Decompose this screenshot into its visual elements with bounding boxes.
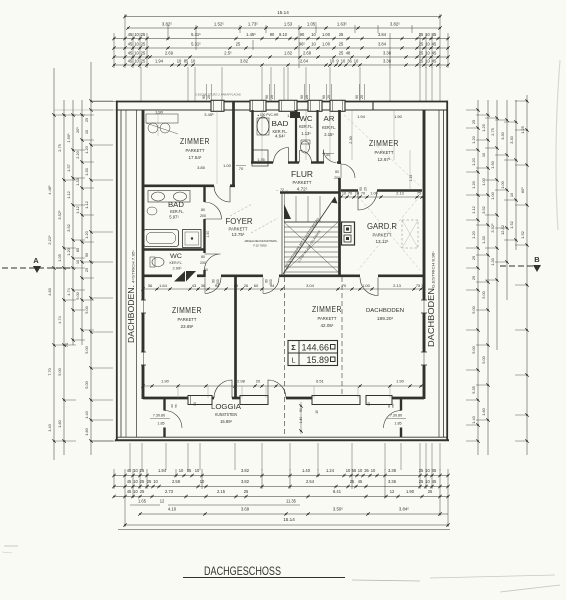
svg-text:← 72 →: ← 72 → [276,188,288,192]
svg-text:DACHBODEN.: DACHBODEN. [127,285,136,343]
svg-text:1.90: 1.90 [161,379,170,384]
svg-text:96⁵: 96⁵ [299,42,306,47]
svg-text:1.05: 1.05 [57,254,62,262]
door arc zimmer-bc [263,278,279,294]
svg-text:1.20: 1.20 [471,135,476,143]
loggia side walls [163,398,165,411]
svg-text:25: 25 [419,51,424,56]
door arc dachboden [360,278,378,296]
svg-text:8.41: 8.41 [333,489,342,494]
svg-text:26: 26 [244,283,249,288]
svg-text:85: 85 [184,59,189,64]
svg-text:25: 25 [140,489,145,494]
svg-text:60⁵: 60⁵ [520,187,525,193]
door arc zimmer-tr [341,164,355,178]
svg-text:189.20¹: 189.20¹ [377,316,394,322]
svg-text:PARKETT: PARKETT [178,317,197,322]
svg-text:25: 25 [140,479,145,484]
svg-text:36: 36 [201,283,206,288]
svg-text:1.94: 1.94 [357,114,366,119]
svg-text:45: 45 [358,479,363,484]
svg-text:1.00: 1.00 [322,32,331,37]
svg-text:4.64¹: 4.64¹ [275,134,286,139]
svg-text:10: 10 [311,32,316,37]
door arc loggia right [268,380,286,398]
svg-text:1.20: 1.20 [66,247,71,255]
svg-text:10: 10 [179,468,184,473]
svg-text:20⁵: 20⁵ [75,127,80,133]
svg-text:2.15: 2.15 [217,489,226,494]
svg-text:2.98: 2.98 [237,379,246,384]
svg-text:1.24: 1.24 [326,468,335,473]
svg-text:2.64: 2.64 [300,59,309,64]
svg-text:11.35: 11.35 [286,499,297,504]
svg-text:1.82: 1.82 [284,51,293,56]
svg-text:94: 94 [215,283,220,288]
svg-text:3.82: 3.82 [241,468,250,473]
svg-text:5.97¹: 5.97¹ [169,215,179,220]
svg-text:25: 25 [244,489,249,494]
svg-text:25: 25 [471,120,476,124]
svg-text:5.00: 5.00 [84,345,89,353]
wall middle horizontal [143,274,172,277]
loggia left compartment door [165,411,183,429]
svg-text:20: 20 [364,187,368,191]
svg-text:5.00: 5.00 [481,290,486,298]
svg-text:144.66: 144.66 [301,343,329,353]
svg-text:90: 90 [270,32,275,37]
svg-text:35: 35 [421,284,425,288]
wall below bad/wc/ar [251,161,273,163]
wall wc/ar [316,110,318,164]
svg-text:25: 25 [350,479,355,484]
svg-text:43: 43 [192,283,197,288]
wall bad2/wc2 [143,248,204,250]
svg-text:1.00: 1.00 [362,283,371,288]
svg-text:10: 10 [200,479,205,484]
svg-text:80: 80 [201,255,205,259]
left dimension band [47,62,116,460]
svg-text:65: 65 [234,283,239,288]
svg-text:KER.FL.: KER.FL. [322,125,336,130]
svg-text:45: 45 [432,51,437,56]
fixtures bad2: shower [183,230,202,248]
svg-text:75: 75 [416,283,421,288]
svg-text:10: 10 [134,51,139,56]
smudge right of title [352,580,420,581]
svg-text:3.84: 3.84 [378,42,387,47]
svg-text:2.21⁵: 2.21⁵ [47,235,52,245]
door arc bad [274,148,289,163]
svg-text:15.14: 15.14 [277,10,289,15]
svg-text:2.69: 2.69 [165,51,174,56]
fixtures wc top: toilet [301,141,310,153]
svg-text:5.00: 5.00 [481,355,486,363]
svg-text:5.35: 5.35 [471,386,476,394]
svg-text:DACHGESCHOSS: DACHGESCHOSS [204,564,281,578]
svg-text:1.64: 1.64 [159,283,168,288]
svg-text:55: 55 [174,404,178,408]
radiator in wall [174,271,185,282]
svg-text:1.40: 1.40 [471,415,476,423]
svg-text:1.15: 1.15 [409,175,413,182]
inner wall right [423,110,426,399]
svg-text:2.75: 2.75 [490,128,495,136]
svg-text:25: 25 [141,42,146,47]
svg-text:PARKETT: PARKETT [186,148,205,153]
svg-text:2.73: 2.73 [165,489,174,494]
svg-text:5.00: 5.00 [84,380,89,388]
svg-text:2.99¹: 2.99¹ [172,266,182,271]
svg-text:45: 45 [432,468,437,473]
gard.r dim row [339,192,424,199]
svg-text:10: 10 [341,59,346,64]
svg-text:PARKETT: PARKETT [318,316,337,321]
svg-text:3.52: 3.52 [481,206,486,214]
svg-text:25: 25 [339,42,344,47]
svg-text:48: 48 [346,51,351,56]
svg-text:3.82⁵: 3.82⁵ [390,22,400,27]
svg-text:60: 60 [254,283,259,288]
svg-text:25: 25 [419,468,424,473]
svg-text:PARKETT: PARKETT [375,150,394,155]
svg-text:1.40: 1.40 [47,423,52,431]
svg-text:1.00: 1.00 [490,191,495,199]
svg-text:3.45⁵: 3.45⁵ [204,112,214,117]
svg-text:7.30.80: 7.30.80 [390,414,402,418]
svg-text:PARKETT: PARKETT [373,233,392,238]
svg-text:25: 25 [141,32,146,37]
svg-text:1.60: 1.60 [57,419,62,427]
outer wall left [116,101,118,441]
svg-text:45: 45 [127,479,132,484]
bottom dimension band [112,443,450,530]
svg-text:3.82: 3.82 [240,59,249,64]
svg-text:1.63⁵: 1.63⁵ [337,22,347,27]
svg-text:12: 12 [160,499,165,504]
svg-text:5.00: 5.00 [75,291,80,299]
fixtures bad2: twin basins [148,191,190,203]
svg-text:90: 90 [355,95,359,99]
svg-text:25: 25 [471,276,476,280]
svg-text:F.10 70/50: F.10 70/50 [253,244,267,248]
svg-text:10: 10 [342,192,346,196]
svg-text:PARKETT: PARKETT [229,227,248,232]
svg-text:45: 45 [127,489,132,494]
svg-text:13.75¹: 13.75¹ [231,232,244,237]
svg-text:1.90: 1.90 [155,110,164,115]
svg-text:LOGGIA: LOGGIA [211,404,241,411]
svg-text:G.ESCHE STURZ U. PARAP.FLÄCHE: G.ESCHE STURZ U. PARAP.FLÄCHE [195,93,241,97]
svg-text:20: 20 [305,95,309,99]
svg-text:10: 10 [133,468,138,473]
svg-text:1.00: 1.00 [370,192,377,196]
svg-text:10: 10 [371,468,376,473]
svg-text:45: 45 [432,59,437,64]
svg-text:KUNSTSTEIN: KUNSTSTEIN [215,412,237,417]
svg-text:FLUR: FLUR [291,170,313,179]
svg-text:2.68: 2.68 [303,51,312,56]
svg-text:6.51: 6.51 [316,379,325,384]
svg-text:25: 25 [419,59,424,64]
gard.r dashed closet [402,220,418,248]
svg-text:55: 55 [352,468,357,473]
svg-text:45: 45 [432,42,437,47]
right dachboden strip [438,110,440,437]
svg-text:10: 10 [177,59,182,64]
svg-text:1.90: 1.90 [396,379,405,384]
outer wall right [446,101,448,441]
wall zimmer-tl right [232,101,235,187]
svg-text:25: 25 [428,489,433,494]
svg-text:36: 36 [148,283,153,288]
svg-text:1.20: 1.20 [84,145,89,153]
faint edge marks bottom-left [4,545,18,547]
svg-text:23.69¹: 23.69¹ [180,324,193,329]
door arc ar [324,150,337,163]
svg-text:55: 55 [391,404,395,408]
outer wall bottom [115,439,449,441]
svg-text:2.59: 2.59 [172,479,181,484]
wall zimmer-tl bottom [143,184,214,187]
svg-text:1.00: 1.00 [500,180,505,188]
svg-text:▴ 100 PVC-HR: ▴ 100 PVC-HR [258,113,280,117]
svg-text:1.94: 1.94 [155,59,164,64]
svg-text:25: 25 [141,51,146,56]
svg-text:10: 10 [346,468,351,473]
svg-text:50: 50 [204,268,208,272]
svg-text:1.65: 1.65 [138,499,147,504]
svg-text:20: 20 [327,95,331,99]
svg-text:1.60: 1.60 [84,427,89,435]
svg-text:45: 45 [128,59,133,64]
svg-text:1.85: 1.85 [394,422,401,426]
svg-text:70: 70 [64,342,69,347]
svg-text:DACHBODEN: DACHBODEN [366,308,404,314]
svg-text:25: 25 [339,32,344,37]
door arc zimmer-tl [214,186,230,202]
svg-text:20: 20 [360,95,364,99]
stair diagonal [283,197,335,274]
svg-text:1.40: 1.40 [302,468,311,473]
svg-text:4=STRICH 7.95▫: 4=STRICH 7.95▫ [132,249,136,283]
section marker B [500,255,541,272]
svg-text:90: 90 [359,187,363,191]
wall wc2 right [203,270,205,277]
svg-text:1.85: 1.85 [157,422,164,426]
svg-text:80: 80 [265,279,269,283]
svg-text:3.50⁵: 3.50⁵ [333,507,343,512]
svg-text:1.12: 1.12 [66,191,71,199]
svg-text:KER.FL.: KER.FL. [170,209,184,214]
wall bad/wc [295,110,297,164]
svg-text:1.50⁵: 1.50⁵ [66,133,71,143]
svg-text:L: L [291,356,295,365]
svg-text:85: 85 [187,468,192,473]
svg-text:2.15¹: 2.15¹ [324,132,334,137]
svg-text:45: 45 [128,32,133,37]
svg-text:70: 70 [348,192,352,196]
svg-text:2.20: 2.20 [75,150,80,158]
svg-text:10: 10 [195,468,200,473]
svg-text:90: 90 [265,95,269,99]
dashed roof line right [341,277,343,399]
svg-text:12: 12 [390,489,395,494]
svg-text:1.57: 1.57 [66,164,71,172]
svg-text:90: 90 [300,32,305,37]
svg-text:25: 25 [471,256,476,260]
svg-text:3.52: 3.52 [66,224,71,232]
svg-text:1.20: 1.20 [471,157,476,165]
svg-text:1.60: 1.60 [481,407,486,415]
svg-text:15: 15 [315,410,319,414]
top dimension band [112,10,450,101]
svg-text:10: 10 [134,42,139,47]
svg-text:KER.FL.: KER.FL. [170,260,183,265]
svg-text:20: 20 [270,95,274,99]
svg-text:1.00: 1.00 [223,163,232,168]
svg-text:1.00: 1.00 [322,42,331,47]
svg-text:1.73⁵: 1.73⁵ [248,22,258,27]
svg-text:25: 25 [419,479,424,484]
svg-text:200: 200 [200,261,206,265]
svg-text:1.20: 1.20 [471,180,476,188]
svg-text:45: 45 [127,468,132,473]
fixtures zimmer-tl: wardrobe [146,114,178,123]
wall stairs right [338,178,341,276]
svg-text:1.00: 1.00 [481,177,486,185]
svg-text:70: 70 [361,192,365,196]
svg-text:90: 90 [300,95,304,99]
svg-text:45: 45 [128,51,133,56]
svg-text:10: 10 [133,489,138,494]
stair cross [284,222,338,272]
door arc wc [300,151,312,163]
svg-text:2.5⁵: 2.5⁵ [224,51,232,56]
svg-text:1.25: 1.25 [481,124,486,132]
svg-text:3.38: 3.38 [388,468,397,473]
svg-text:45: 45 [432,32,437,37]
svg-text:1.12: 1.12 [75,206,80,214]
svg-text:1.12: 1.12 [84,201,89,209]
svg-text:7.30.80: 7.30.80 [153,414,165,418]
svg-text:3.82⁵: 3.82⁵ [162,22,172,27]
svg-text:1.90: 1.90 [394,114,403,119]
svg-text:3.38: 3.38 [383,59,392,64]
svg-text:9.10: 9.10 [279,32,288,37]
svg-text:BAD: BAD [168,202,184,209]
staircase [282,192,338,276]
svg-text:15.89: 15.89 [306,355,329,365]
svg-text:20: 20 [256,379,261,384]
svg-text:70: 70 [239,166,244,171]
svg-text:10: 10 [355,192,359,196]
svg-text:200: 200 [200,214,206,218]
svg-text:5.00: 5.00 [57,367,62,375]
svg-text:25: 25 [419,42,424,47]
svg-text:85: 85 [75,248,80,252]
right dimension band [466,95,529,455]
svg-text:1.13¹: 1.13¹ [301,131,311,136]
svg-text:4.74: 4.74 [57,315,62,323]
svg-text:45: 45 [432,479,437,484]
svg-text:ABGEH.DECKENUNTERS.: ABGEH.DECKENUNTERS. [245,239,278,243]
svg-text:10: 10 [134,32,139,37]
svg-text:1.53: 1.53 [284,22,293,27]
wall between lower zimmers [234,277,237,399]
loggia dim row [141,379,424,388]
svg-text:10: 10 [358,468,363,473]
wall bad left [251,110,253,164]
svg-text:3.85: 3.85 [197,165,206,170]
svg-text:10: 10 [134,59,139,64]
svg-text:90: 90 [322,95,326,99]
svg-text:2.54: 2.54 [306,479,315,484]
left dachboden strip [125,110,127,437]
svg-text:25: 25 [419,32,424,37]
svg-text:1.94: 1.94 [158,468,167,473]
svg-text:ZIMMER: ZIMMER [180,137,210,146]
svg-text:1.52: 1.52 [520,231,525,239]
svg-text:90: 90 [367,402,371,406]
svg-text:4.74: 4.74 [66,287,71,295]
svg-text:G.ESTRICH 8.90▫: G.ESTRICH 8.90▫ [432,250,436,288]
svg-text:1.20: 1.20 [471,230,476,238]
svg-text:12.32: 12.32 [500,225,505,235]
svg-text:4.63: 4.63 [47,288,52,296]
interior dimension row [141,283,424,291]
svg-text:90: 90 [193,402,197,406]
inner wall left [142,110,145,399]
svg-text:4.46⁵: 4.46⁵ [47,185,52,195]
svg-text:2.13: 2.13 [396,192,403,196]
dashed roof line left [284,277,286,437]
svg-text:ZIMMER: ZIMMER [312,305,342,314]
svg-text:3.69: 3.69 [241,507,250,512]
wall bad2 right [203,187,205,202]
svg-text:5.00: 5.00 [471,305,476,313]
outer wall top [116,101,448,103]
svg-text:3.36: 3.36 [388,479,397,484]
svg-text:70: 70 [342,283,347,288]
fixtures wc2: toilet [152,258,164,267]
svg-text:10: 10 [311,42,316,47]
svg-text:15.89¹: 15.89¹ [220,419,232,424]
svg-text:10: 10 [133,479,138,484]
svg-text:36: 36 [347,59,352,64]
door arc bad2 [205,202,222,219]
svg-text:5.00: 5.00 [84,305,89,313]
svg-text:1.52: 1.52 [509,221,514,229]
svg-text:3.30: 3.30 [500,131,505,139]
dashed diagonal zimmer-tr [344,115,420,186]
loggia right compartment door [384,411,402,429]
door arc wc2 [205,254,221,270]
svg-text:36: 36 [364,468,369,473]
svg-text:13.12¹: 13.12¹ [375,239,388,244]
svg-text:WC: WC [300,116,313,123]
svg-text:5.00: 5.00 [471,345,476,353]
svg-text:2.75: 2.75 [57,144,62,152]
svg-text:FOYER: FOYER [226,217,253,226]
door arc gard-r [358,191,377,210]
door arc zimmer-bl [205,278,221,294]
wall ar right [338,110,341,164]
wall rooms bottom [143,397,188,400]
svg-text:75: 75 [417,192,421,196]
roof windows top [252,102,254,111]
svg-text:PARKETT: PARKETT [293,180,312,185]
